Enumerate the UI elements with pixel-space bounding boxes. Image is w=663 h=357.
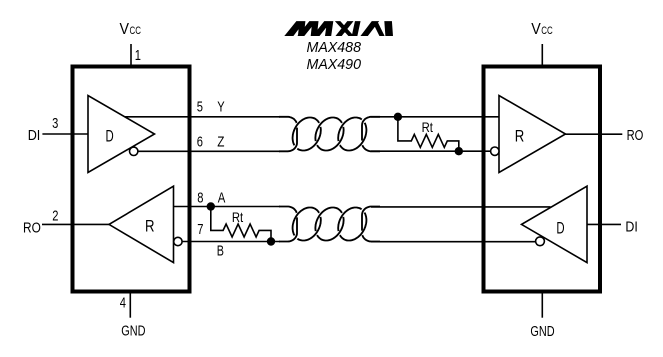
wire DI input (right) xyxy=(587,223,621,225)
node junction dot (top pair, B side) xyxy=(455,147,463,155)
svg-text:D: D xyxy=(556,218,564,237)
wire Y line pin 5 (left segment) xyxy=(125,116,280,118)
twisted pair top loop 2 xyxy=(317,127,344,151)
svg-text:D: D xyxy=(106,126,114,145)
MAXIM logo xyxy=(285,22,392,36)
twisted pair bottom cap right xyxy=(362,207,380,231)
svg-text:RO: RO xyxy=(23,220,41,237)
IC box U1 (left MAX488/MAX490) xyxy=(73,67,190,292)
node junction dot (bottom pair, B side) xyxy=(267,237,275,245)
twisted pair bottom loop 1 xyxy=(293,208,320,236)
twisted pair bottom loop 2 xyxy=(317,217,344,241)
node junction dot (bottom pair, A side) xyxy=(207,202,215,210)
resistor Rt (bottom termination): leads and zigzag xyxy=(211,207,271,242)
resistor Rt (top termination): leads and zigzag xyxy=(398,117,459,151)
wire RO output (right) xyxy=(566,133,623,135)
twisted pair top loop 1 xyxy=(293,118,320,146)
svg-text:GND: GND xyxy=(121,322,145,339)
wire A line pin 8 (left segment, bottom pair) xyxy=(174,206,281,208)
twisted pair top loop 3 xyxy=(338,118,362,142)
twisted pair top cap left xyxy=(279,128,297,152)
svg-text:GND: GND xyxy=(530,323,554,340)
twisted pair bottom loop 3 xyxy=(338,208,361,232)
svg-text:Rt: Rt xyxy=(422,119,433,135)
twisted pair top cap right xyxy=(362,145,380,151)
twisted pair bottom cap left xyxy=(279,207,297,213)
svg-text:R: R xyxy=(145,217,155,236)
svg-text:1: 1 xyxy=(135,47,141,64)
twisted pair bottom loop 1 xyxy=(297,217,320,241)
wire Z line pin 6 (left segment) xyxy=(138,150,280,152)
svg-text:8: 8 xyxy=(197,190,203,207)
svg-text:B: B xyxy=(217,243,224,260)
svg-text:V: V xyxy=(120,21,130,38)
inverting bubble on receiver R1 input B xyxy=(174,237,182,245)
wire GND pin 4 stub (left) xyxy=(129,291,131,318)
wire Vcc stub (right) xyxy=(541,44,543,67)
wire Vcc pin 1 stub (left) xyxy=(130,44,132,67)
svg-text:DI: DI xyxy=(28,127,41,144)
wire Y/A line (right segment, top pair) xyxy=(371,116,499,118)
twisted pair top loop 1 xyxy=(297,127,321,151)
twisted pair bottom loop 3 xyxy=(340,213,367,241)
twisted pair bottom loop 2 xyxy=(315,208,342,232)
svg-text:R: R xyxy=(515,126,525,145)
wire RO output (left) xyxy=(42,223,109,225)
wire A line (right segment, bottom pair) xyxy=(371,206,551,208)
inverting bubble on driver D2 input B xyxy=(536,237,545,246)
svg-text:CC: CC xyxy=(541,25,553,37)
twisted pair top cap left xyxy=(279,117,297,123)
node junction dot (top pair, A side) xyxy=(394,113,402,121)
svg-text:V: V xyxy=(531,21,541,38)
svg-text:2: 2 xyxy=(52,208,58,225)
wire Z/B line (right segment, top pair) xyxy=(371,150,491,152)
wire GND stub (right) xyxy=(541,291,543,318)
svg-text:3: 3 xyxy=(52,115,58,132)
op-amp R1 receiver triangle (left) xyxy=(109,186,174,262)
wire B line pin 7 (left segment, bottom pair) xyxy=(182,241,280,243)
IC box U2 (right MAX488/MAX490) xyxy=(484,67,601,292)
svg-text:7: 7 xyxy=(197,221,203,238)
svg-text:RO: RO xyxy=(627,127,644,144)
op-amp D2 driver triangle (right) xyxy=(522,186,588,262)
svg-text:Z: Z xyxy=(217,134,224,151)
svg-text:MAX488: MAX488 xyxy=(307,39,362,56)
op-amp D1 driver triangle (left) xyxy=(88,96,155,173)
twisted pair bottom cap right xyxy=(362,235,380,241)
twisted pair top loop 2 xyxy=(315,118,342,142)
twisted pair top cap right xyxy=(362,117,380,141)
svg-text:6: 6 xyxy=(197,134,203,151)
twisted pair bottom cap left xyxy=(279,217,297,241)
svg-text:A: A xyxy=(218,190,226,207)
wire DI input (left) xyxy=(42,133,88,135)
svg-text:CC: CC xyxy=(130,25,142,37)
op-amp R2 receiver triangle (right) xyxy=(499,96,566,173)
wire B line (right segment, bottom pair) xyxy=(371,241,536,243)
twisted pair top loop 3 xyxy=(340,123,367,151)
inverting bubble on receiver R2 input xyxy=(491,147,499,155)
svg-text:5: 5 xyxy=(197,99,203,116)
inverting bubble on driver D1 output Z xyxy=(130,147,138,155)
svg-text:DI: DI xyxy=(625,218,637,235)
svg-text:MAX490: MAX490 xyxy=(307,56,362,73)
svg-text:Rt: Rt xyxy=(232,209,243,225)
svg-text:Y: Y xyxy=(217,99,224,116)
svg-text:4: 4 xyxy=(120,295,126,312)
